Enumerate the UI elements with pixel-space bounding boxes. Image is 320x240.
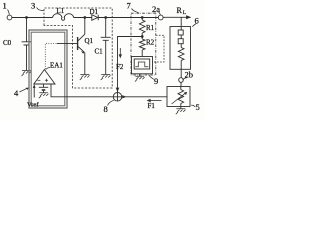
label 4: [14, 88, 19, 98]
minus sign EA1: [37, 79, 40, 81]
terminal 2a circle: [158, 15, 163, 20]
label Q1: [85, 37, 94, 45]
capacitor C1: [101, 37, 111, 40]
op-amp EA1: [34, 70, 55, 85]
svg-text:Q1: Q1: [85, 37, 94, 45]
svg-text:L: L: [183, 10, 187, 16]
terminal 1 circle: [7, 15, 12, 20]
leader squiggle for 7: [132, 9, 139, 13]
terminal 2b circle: [179, 78, 184, 83]
label F1: [148, 102, 156, 110]
label 1: [3, 1, 7, 11]
resistor R1: [139, 20, 145, 33]
pulse waveform: [135, 62, 148, 67]
ground under Q1 emitter: [80, 75, 90, 81]
svg-text:8: 8: [104, 104, 108, 114]
svg-text:C1: C1: [95, 48, 104, 56]
arrow across variable resistor: [172, 93, 186, 104]
label 5: [196, 102, 200, 112]
element square a in box 6: [178, 30, 183, 35]
node junction R1 top: [141, 16, 144, 19]
wire R2 to pulse box: [141, 50, 143, 57]
wire C1 upper: [105, 18, 107, 38]
label 2a: [152, 4, 160, 14]
battery Vref: [39, 86, 48, 88]
label 9: [154, 76, 158, 86]
svg-text:F1: F1: [148, 102, 156, 110]
node junction R1-R2: [141, 35, 144, 38]
label 3: [31, 1, 35, 11]
label C1: [95, 48, 104, 56]
label 8: [104, 104, 108, 114]
resistor R2: [139, 39, 145, 50]
wire C1 lower: [105, 40, 107, 74]
arrow F2 flow indicator: [119, 48, 121, 55]
leader squiggle for 6: [192, 24, 196, 27]
load box 5: [167, 87, 190, 107]
wire L1 to D1: [74, 17, 92, 19]
svg-text:R2: R2: [146, 39, 155, 47]
capacitor C0: [22, 42, 32, 45]
wire battery to ground: [43, 91, 45, 93]
leader squiggle for 2a: [159, 12, 161, 15]
ground under box 5: [176, 109, 186, 114]
svg-text:Vref: Vref: [27, 102, 39, 109]
label R1: [146, 24, 155, 32]
svg-text:5: 5: [196, 102, 200, 112]
leader squiggle for 9: [149, 75, 154, 80]
wire input rail left: [12, 17, 53, 19]
summing node 8: [113, 93, 122, 102]
dashed link box7 to box6: [153, 35, 164, 62]
label F2: [116, 63, 124, 71]
label R2: [146, 39, 155, 47]
wire EA1 minus input down and to node 8: [51, 84, 113, 97]
node junction C0: [25, 16, 28, 19]
label 7: [127, 1, 131, 11]
ground under C1: [101, 75, 111, 81]
wire 2b to box 5: [180, 82, 182, 86]
arrow F1 flow indicator: [150, 100, 162, 102]
svg-text:1: 1: [3, 1, 7, 11]
pulse generator box: [132, 57, 153, 74]
leader squiggle for EA1: [46, 68, 50, 70]
wire C0 lower: [26, 45, 28, 71]
leader arrow for 4: [20, 88, 28, 92]
svg-text:R: R: [177, 6, 183, 15]
wire 2a to load with RL arrow: [163, 16, 187, 18]
diode D1: [92, 15, 98, 21]
wire R1 to R2: [141, 33, 143, 39]
resistor in box 6: [178, 48, 184, 61]
arrowhead into node 8: [116, 88, 120, 92]
Vref arrow: [33, 87, 35, 98]
wire rail to R1: [141, 18, 143, 21]
svg-text:F2: F2: [116, 63, 124, 71]
leader squiggle for 1: [8, 10, 10, 15]
svg-text:3: 3: [31, 1, 35, 11]
node junction Q1 collector: [83, 16, 86, 19]
svg-text:D1: D1: [90, 8, 99, 16]
svg-text:9: 9: [154, 76, 158, 86]
label EA1: [50, 62, 63, 70]
dotted wire EA1 output to Q1 base: [45, 44, 57, 70]
leader squiggle for 8: [108, 100, 114, 105]
node junction C1: [104, 16, 107, 19]
svg-text:R1: R1: [146, 24, 155, 32]
wire D1 to 2a: [98, 17, 159, 19]
wire C0 branch upper: [26, 18, 28, 42]
ground under pulse box: [135, 76, 145, 81]
svg-text:4: 4: [14, 88, 19, 98]
wire segments in box 6: [180, 27, 182, 70]
ground under C0: [22, 71, 32, 77]
op-amp box 4 (double grey border): [29, 30, 67, 108]
inductor L1: [53, 14, 74, 21]
wire box 6 to terminal 2b: [180, 69, 182, 77]
label L1: [57, 7, 65, 15]
label RL: [177, 6, 187, 16]
load box 6: [170, 27, 191, 70]
dashed box 3 (converter block, stepped outline): [44, 8, 112, 88]
element square b in box 6: [178, 39, 183, 44]
label 6: [195, 16, 199, 26]
leader squiggle for 5: [191, 105, 195, 107]
label Vref: [27, 102, 39, 109]
svg-text:7: 7: [127, 1, 131, 11]
wire EA1 plus input to Vref battery: [43, 84, 45, 87]
ground under Vref: [39, 93, 49, 98]
wire divider tap to node 8 vertical: [118, 37, 143, 93]
svg-text:EA1: EA1: [50, 62, 63, 70]
wire node 8 to load box 5: [113, 96, 167, 98]
leader squiggle for 3: [37, 8, 44, 11]
variable resistor in box 5: [178, 87, 184, 107]
wire box 5 to ground: [180, 107, 182, 109]
label 2b: [185, 70, 194, 80]
leader squiggle for 2b: [183, 78, 187, 80]
label C0: [3, 39, 12, 47]
arrowhead out of node 8: [122, 95, 126, 98]
plus sign EA1: [45, 79, 48, 82]
wire pulse box to ground: [139, 74, 141, 76]
label D1: [90, 8, 99, 16]
transistor Q1: [68, 18, 85, 75]
wire down into box 6: [180, 17, 182, 26]
svg-text:C0: C0: [3, 39, 12, 47]
dash-dot box 7 (feedback divider block): [131, 13, 156, 75]
